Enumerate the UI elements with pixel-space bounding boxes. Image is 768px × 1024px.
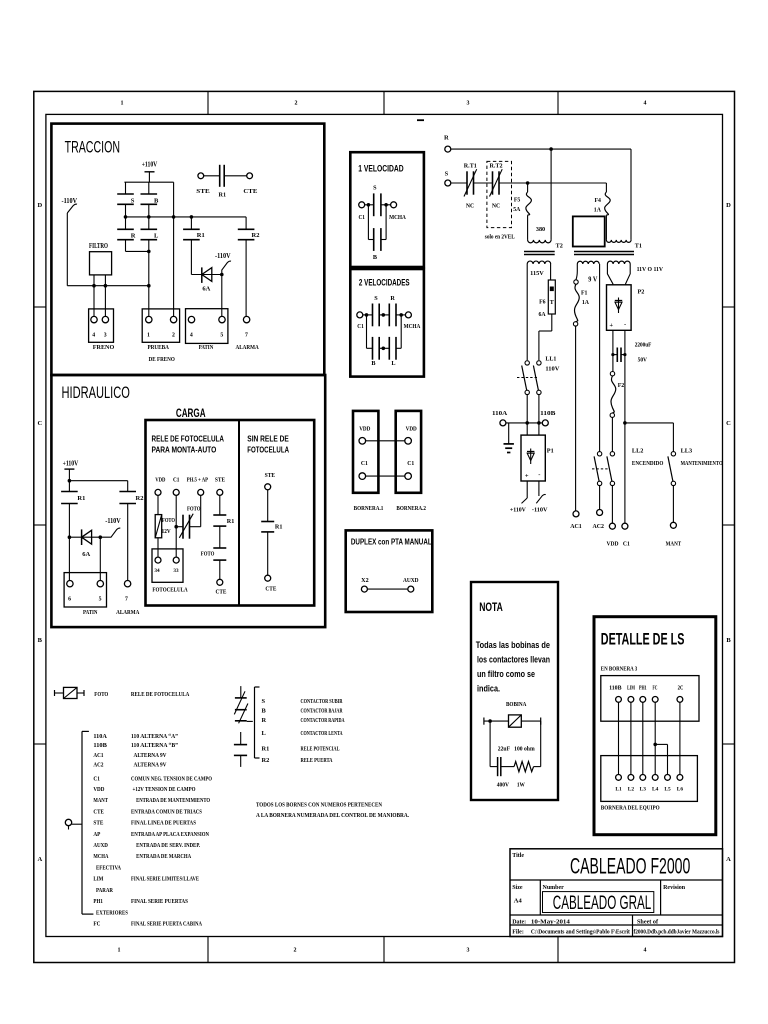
svg-text:FOTO: FOTO (187, 505, 201, 512)
2 VELOCIDADES box (350, 269, 424, 377)
svg-text:R1: R1 (227, 518, 235, 525)
wire R to T1 primary right (630, 149, 632, 240)
contact L (141, 228, 158, 230)
contact B (2vel) (372, 337, 374, 360)
terminal CTE (carga) (217, 579, 223, 585)
resistor 100 ohm 1W (514, 762, 534, 772)
dashed box solo en 2VEL (487, 161, 512, 227)
wire C1 to LL3 (625, 422, 674, 424)
svg-text:VDD: VDD (93, 786, 104, 793)
svg-text:PARAR: PARAR (96, 887, 113, 894)
wire R1 to FOTO contact (carga) (219, 526, 221, 548)
svg-text:BORNERA.2: BORNERA.2 (396, 505, 426, 512)
svg-text:ENTRADA DE SERV. INDEP.: ENTRADA DE SERV. INDEP. (136, 842, 200, 849)
svg-text:BORNERA DEL EQUIPO: BORNERA DEL EQUIPO (601, 804, 660, 811)
detalle lower terminals L1-L6 (616, 775, 622, 781)
terminal MCHA (2vel) (405, 312, 411, 318)
svg-text:-: - (624, 321, 626, 328)
svg-text:BORNERA.1: BORNERA.1 (354, 505, 384, 512)
svg-text:PATIN: PATIN (199, 344, 214, 351)
svg-text:AC2: AC2 (592, 523, 604, 530)
transformer T1 secondary 9V (577, 261, 599, 264)
svg-text:CTE: CTE (216, 588, 227, 595)
wire 9V right = AC2 lead (599, 264, 601, 452)
wire to CTE (sin rele) (267, 532, 269, 575)
svg-text:4: 4 (644, 948, 647, 954)
terminal block PATIN (hidraulico) (64, 573, 106, 607)
wire R1 lead down to diode wire (190, 240, 192, 275)
svg-text:DETALLE DE LS: DETALLE DE LS (601, 631, 685, 649)
detalle upper bornera box (601, 676, 699, 722)
legend contactor symbols (240, 686, 242, 698)
CARGA outer box (146, 420, 315, 606)
svg-text:Todas las bobinas de: Todas las bobinas de (476, 640, 550, 650)
svg-text:SIN RELE DE: SIN RELE DE (247, 434, 289, 443)
svg-text:STE: STE (93, 820, 103, 827)
svg-text:1A: 1A (582, 300, 590, 306)
svg-text:NOTA: NOTA (479, 602, 503, 614)
TRACCION section box (51, 124, 324, 375)
contact R1 (carga) (213, 514, 226, 516)
wire B lead lower (148, 204, 150, 217)
svg-text:PH1: PH1 (639, 686, 647, 692)
svg-text:10-May-2014: 10-May-2014 (531, 919, 570, 925)
svg-text:400V: 400V (497, 781, 510, 788)
svg-text:5A: 5A (513, 207, 521, 213)
svg-text:CONTACTOR LENTA: CONTACTOR LENTA (301, 730, 343, 737)
svg-text:1W: 1W (517, 781, 526, 788)
svg-text:110V: 110V (545, 366, 560, 373)
svg-text:TODOS LOS BORNES CON NUMEROS P: TODOS LOS BORNES CON NUMEROS PERTENECEN (256, 801, 382, 808)
svg-text:L3: L3 (640, 787, 647, 793)
svg-text:380: 380 (536, 226, 545, 233)
frame top band dividers (207, 91, 209, 114)
svg-text:ALARMA: ALARMA (236, 344, 259, 351)
svg-text:AUXD: AUXD (403, 577, 419, 584)
svg-text:EN BORNERA 3: EN BORNERA 3 (601, 665, 637, 672)
svg-text:+12V TENSION DE CAMPO: +12V TENSION DE CAMPO (133, 786, 196, 793)
switch LL1 110V (525, 361, 529, 365)
terminal ALARMA (traccion) (243, 316, 249, 322)
wire R2 lead down to alarma (hidraulico) (127, 504, 129, 581)
legend borne symbol (65, 819, 71, 825)
svg-text:A4: A4 (514, 897, 523, 904)
svg-text:DUPLEX con PTA MANUAL: DUPLEX con PTA MANUAL (351, 537, 432, 547)
svg-text:R1: R1 (275, 524, 283, 531)
svg-text:R: R (444, 135, 449, 142)
svg-text:LL2: LL2 (632, 447, 644, 454)
wire P1 + output (526, 481, 528, 498)
svg-text:-110V: -110V (105, 518, 121, 525)
svg-text:D: D (37, 202, 42, 209)
svg-text:B: B (371, 360, 375, 367)
svg-text:P2: P2 (638, 289, 645, 296)
svg-text:f2000.Ddb.pcb.ddbJavier Mazzuc: f2000.Ddb.pcb.ddbJavier Mazzucco.ls (634, 930, 721, 936)
svg-text:VDD: VDD (359, 425, 371, 432)
svg-text:L5: L5 (664, 787, 671, 793)
terminal block FOTOCELULA (152, 549, 183, 582)
svg-text:FINAL SERIE PUERTAS: FINAL SERIE PUERTAS (131, 898, 188, 905)
svg-text:3: 3 (467, 948, 470, 954)
detalle wires down (618, 702, 620, 774)
capacitor 2200uF 50V (613, 354, 617, 356)
svg-text:C1: C1 (407, 460, 414, 467)
wire bottom bus S-B (126, 250, 149, 252)
wire R lead lower (125, 240, 127, 252)
svg-text:AP: AP (93, 831, 100, 838)
transformer T1 secondary 11V O 11V (607, 261, 630, 264)
svg-text:F2: F2 (618, 383, 625, 389)
svg-text:Number: Number (543, 885, 565, 891)
svg-text:110A: 110A (492, 410, 508, 417)
transformer T2 core (524, 251, 555, 253)
svg-text:A: A (726, 856, 731, 863)
svg-text:STE: STE (196, 188, 210, 195)
svg-text:C1: C1 (358, 214, 365, 221)
svg-text:C1: C1 (173, 476, 180, 483)
svg-text:HIDRAULICO: HIDRAULICO (62, 384, 131, 402)
svg-text:indica.: indica. (477, 684, 500, 694)
svg-text:C: C (726, 420, 731, 427)
terminal VDD (right) (609, 523, 615, 529)
wire VDD link (366, 440, 405, 442)
svg-text:7: 7 (245, 333, 248, 339)
contact S (117, 193, 134, 195)
svg-text:RELE POTENCIAL: RELE POTENCIAL (301, 746, 340, 753)
FILTRO box (90, 252, 112, 275)
svg-text:9 V: 9 V (588, 277, 597, 284)
svg-text:C: C (37, 420, 42, 427)
bobina coil box (509, 715, 522, 727)
svg-text:4: 4 (190, 333, 193, 339)
title block column dividers (539, 880, 541, 915)
svg-text:FOTO: FOTO (162, 517, 175, 524)
svg-text:R: R (390, 295, 395, 302)
svg-text:L4: L4 (652, 787, 659, 793)
svg-text:ALARMA: ALARMA (116, 609, 139, 616)
transformer T2 primary (528, 240, 552, 243)
wire STE lead down (carga) (219, 495, 221, 515)
svg-text:+110V: +110V (63, 461, 79, 468)
svg-text:L1: L1 (615, 787, 622, 793)
svg-text:2: 2 (295, 101, 298, 107)
svg-text:S: S (445, 170, 449, 177)
svg-text:34: 34 (154, 568, 160, 574)
DUPLEX con PTA MANUAL box (346, 530, 433, 612)
svg-text:ENCENDIDO: ENCENDIDO (632, 460, 664, 467)
svg-text:5: 5 (220, 333, 223, 339)
svg-text:Sheet of: Sheet of (637, 919, 659, 925)
wire S line to F4 (499, 182, 606, 184)
svg-text:X2: X2 (361, 577, 369, 584)
svg-text:110 ALTERNA “A”: 110 ALTERNA “A” (131, 733, 178, 740)
svg-text:R1: R1 (262, 746, 270, 753)
svg-text:FOTOCELULA: FOTOCELULA (152, 586, 188, 593)
relay coil FOTO 12V (155, 515, 162, 538)
svg-text:AC1: AC1 (570, 523, 582, 530)
svg-text:T1: T1 (635, 243, 642, 250)
svg-text:R2: R2 (136, 495, 144, 502)
svg-text:STE: STE (265, 472, 276, 479)
svg-text:PH1: PH1 (93, 898, 103, 905)
bobina filter wire (483, 718, 485, 725)
svg-text:22uF: 22uF (498, 746, 510, 753)
svg-text:6A: 6A (202, 286, 210, 293)
wire right branch down to prueba terminal 2 (173, 182, 175, 316)
svg-text:-: - (538, 472, 540, 479)
terminal CTE (sin rele) (265, 575, 271, 581)
wire filtro leads down (93, 275, 95, 317)
switch symbol -110V at patin (222, 261, 231, 274)
contact R1 (sin rele) (261, 521, 274, 523)
switch symbol -110V (hidraulico) (100, 528, 120, 537)
svg-text:solo en 2VEL: solo en 2VEL (485, 235, 515, 241)
svg-text:CARGA: CARGA (176, 406, 206, 420)
terminal block PATIN (traccion) (186, 309, 228, 344)
svg-text:3: 3 (104, 333, 107, 339)
svg-text:2: 2 (294, 948, 297, 954)
svg-text:S: S (131, 198, 135, 205)
svg-text:C1: C1 (357, 323, 364, 330)
stray dash mark top center (417, 119, 424, 121)
svg-text:F4: F4 (594, 198, 601, 204)
wire down to patin terminal 5 (traccion) (221, 275, 223, 317)
transformer T1 white box (573, 216, 605, 246)
DETALLE DE LS box (594, 617, 716, 835)
svg-text:2C: 2C (678, 686, 684, 692)
svg-text:11V O 11V: 11V O 11V (637, 266, 664, 273)
wire down to prueba terminal 1 (148, 251, 150, 316)
wire P1 - output with hook (538, 481, 540, 496)
svg-text:1: 1 (147, 333, 150, 339)
terminal C1 (1vel) (359, 202, 365, 208)
1 VELOCIDAD box (350, 152, 424, 267)
svg-text:1: 1 (118, 948, 121, 954)
svg-text:R.T1: R.T1 (464, 163, 477, 169)
svg-text:LIM: LIM (93, 876, 103, 883)
title block row dividers (510, 879, 723, 881)
svg-text:FILTRO: FILTRO (89, 243, 108, 250)
svg-text:R: R (262, 717, 267, 724)
svg-text:CTE: CTE (93, 808, 104, 815)
legend relay contact symbol (240, 732, 242, 745)
wire PH lead down (200, 495, 202, 526)
svg-text:NC: NC (466, 203, 474, 209)
frame right band dividers (723, 306, 735, 308)
svg-text:CTE: CTE (265, 585, 276, 592)
svg-text:MCHA: MCHA (93, 853, 108, 860)
terminal block FRENO (89, 309, 114, 342)
svg-text:L: L (262, 730, 266, 737)
contact FOTO (carga) (213, 547, 226, 549)
svg-text:12V: 12V (162, 528, 171, 535)
wire relay to fotocelula 34 (157, 538, 159, 557)
page frame inner border (46, 114, 723, 936)
contact R1 STE-CTE (204, 175, 220, 177)
contact R1 (traccion) (190, 217, 192, 229)
svg-text:CABLEADO F2000: CABLEADO F2000 (570, 853, 690, 878)
wire P2 outputs (612, 330, 614, 354)
wire R1 lead down (68, 504, 70, 581)
terminal C1 (2vel) (357, 312, 363, 318)
svg-text:FOTO: FOTO (94, 691, 108, 698)
wire X2-AUXD (367, 588, 407, 590)
wire C1 lead down to 33 (175, 495, 177, 557)
HIDRAULICO section box (51, 375, 325, 627)
svg-text:MANTENIMIENTO: MANTENIMIENTO (681, 460, 723, 467)
wire 9V left to F1 (576, 264, 577, 280)
svg-text:CONTACTOR SUBIR: CONTACTOR SUBIR (301, 698, 343, 705)
svg-text:FC: FC (93, 921, 100, 928)
svg-text:CONTACTOR RAPIDA: CONTACTOR RAPIDA (301, 717, 345, 724)
BORNERA.2 box (396, 411, 421, 493)
CARGA divider (238, 420, 240, 606)
svg-text:TRACCION: TRACCION (65, 139, 120, 157)
contact R1 (hidraulico) (68, 481, 70, 492)
svg-text:6: 6 (68, 597, 71, 603)
svg-text:C1: C1 (623, 541, 630, 548)
ground symbol (508, 423, 510, 444)
svg-text:D: D (726, 202, 731, 209)
svg-text:LL3: LL3 (681, 447, 693, 454)
svg-text:AUXD: AUXD (93, 842, 108, 849)
svg-text:+: + (609, 322, 613, 329)
svg-text:T: T (550, 300, 554, 306)
svg-text:ENTRADA AP PLACA EXPANSION: ENTRADA AP PLACA EXPANSION (131, 831, 209, 838)
svg-text:C1: C1 (361, 460, 368, 467)
svg-text:S: S (374, 295, 378, 302)
transformer T1 primary (606, 240, 631, 242)
svg-text:-110V: -110V (215, 253, 231, 260)
svg-text:PARA MONTA-AUTO: PARA MONTA-AUTO (152, 445, 217, 454)
svg-text:VDD: VDD (155, 476, 166, 483)
legend left bracket (81, 731, 83, 914)
wire 11V ends to rectifier P2 (607, 264, 613, 285)
wire B branch (1vel) (367, 205, 369, 240)
svg-text:ENTRADA COMUN DE TRIACS: ENTRADA COMUN DE TRIACS (131, 808, 202, 815)
terminal MCHA (1vel) (391, 202, 397, 208)
svg-text:ENTRADA DE MANTENIMIENTO: ENTRADA DE MANTENIMIENTO (136, 797, 210, 804)
svg-text:110B: 110B (540, 410, 555, 417)
svg-text:B: B (38, 637, 43, 644)
svg-text:CTE: CTE (243, 188, 257, 195)
svg-text:R1: R1 (219, 191, 227, 198)
svg-text:A LA BORNERA NUMERADA DEL CONT: A LA BORNERA NUMERADA DEL CONTROL DE MAN… (256, 812, 409, 819)
junction dot diode-switch (220, 273, 224, 277)
svg-text:+110V: +110V (510, 507, 526, 514)
svg-text:2200uF: 2200uF (635, 341, 652, 348)
contact B (141, 193, 158, 195)
legend FOTO relay symbol (54, 690, 56, 696)
svg-text:T2: T2 (556, 243, 563, 250)
svg-text:L: L (391, 360, 395, 367)
svg-text:LIM: LIM (627, 686, 635, 692)
terminal AC1 (573, 511, 579, 517)
+110V supply bar (traccion) (145, 171, 155, 173)
svg-text:110B: 110B (609, 686, 621, 692)
terminal C1 (right) (622, 523, 628, 529)
svg-text:MANT: MANT (93, 797, 108, 804)
svg-text:5: 5 (99, 597, 102, 603)
svg-text:NC: NC (492, 203, 500, 209)
svg-text:L6: L6 (677, 787, 684, 793)
wire down to patin 5 (hidraulico) (99, 537, 101, 580)
switch LL3 MANTENIMIENTO (671, 452, 675, 456)
junction dot (hidraulico) (99, 535, 103, 539)
wire to CTE (carga) (219, 560, 221, 579)
svg-text:P1: P1 (547, 448, 554, 455)
wire top bus (traccion) (124, 181, 173, 183)
transformer T1 core (574, 251, 634, 253)
wire R2 lead down to alarma (245, 240, 247, 317)
detalle FC jog to L5 (653, 743, 657, 747)
svg-text:R.T2: R.T2 (490, 163, 503, 169)
junction dots on bus (124, 215, 128, 219)
wire L lead lower (148, 240, 150, 252)
svg-text:6A: 6A (82, 551, 90, 558)
fuse F1 1A (574, 280, 578, 284)
svg-text:MCHA: MCHA (389, 214, 406, 221)
detalle lower bornera box (601, 756, 698, 802)
wire junction bus (traccion) (126, 216, 247, 218)
svg-text:FOTOCELULA: FOTOCELULA (247, 445, 289, 454)
svg-text:C1: C1 (93, 776, 100, 783)
bridge rectifier P2 (607, 285, 632, 331)
wire T2 sec right to fuse F6 (550, 264, 552, 280)
svg-text:110A: 110A (93, 733, 107, 740)
BORNERA.1 box (353, 411, 378, 493)
wire 110 line (506, 422, 542, 424)
wire T2 sec left down (526, 264, 528, 360)
wire S lead upper (125, 182, 127, 194)
svg-text:Revision: Revision (663, 885, 686, 891)
svg-text:DE FRENO: DE FRENO (149, 356, 175, 363)
+110V supply bar (hidraulico) (64, 468, 74, 470)
terminal ALARMA (hidraulico) (124, 581, 130, 587)
svg-text:R1: R1 (77, 495, 85, 502)
wire VDD lead (right) (611, 417, 613, 451)
transformer T2 secondary (527, 261, 551, 264)
terminal CTE (traccion) (247, 173, 253, 179)
svg-text:Date:: Date: (512, 919, 526, 925)
wire R to T2 primary right (550, 149, 552, 240)
svg-text:RELE PUERTA: RELE PUERTA (301, 757, 333, 764)
svg-text:BOBINA: BOBINA (506, 701, 527, 708)
number inner box (543, 892, 654, 913)
wire R line (451, 148, 631, 150)
svg-text:Size: Size (512, 885, 523, 891)
svg-text:STE: STE (215, 476, 225, 483)
svg-text:AC2: AC2 (93, 761, 103, 768)
wire C1 link (366, 475, 405, 477)
svg-text:L: L (154, 233, 159, 240)
svg-text:EXTERIORES: EXTERIORES (96, 909, 128, 916)
capacitor 22uF 400V (497, 757, 499, 776)
wire between contacts (474, 182, 493, 184)
contact R2 (hidraulico) (127, 481, 129, 492)
svg-text:B: B (262, 707, 267, 714)
svg-text:LL1: LL1 (545, 356, 556, 363)
svg-text:R2: R2 (252, 232, 260, 239)
terminal MANT (670, 522, 676, 528)
terminal block PRUEBA DE FRENO (142, 309, 179, 342)
NOTA box (471, 582, 558, 800)
svg-text:EFECTIVA: EFECTIVA (96, 864, 121, 871)
svg-text:F1: F1 (581, 290, 588, 296)
fuse F2 (612, 355, 614, 372)
svg-text:ALTERNA 9V: ALTERNA 9V (134, 752, 167, 759)
svg-text:RELE DE FOTOCELULA: RELE DE FOTOCELULA (152, 434, 225, 443)
